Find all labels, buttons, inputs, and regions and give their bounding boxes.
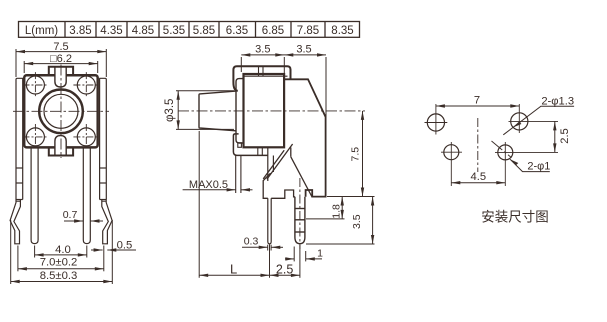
svg-text:2.5: 2.5 [559,128,571,144]
dimension L and 2.5 [199,131,300,278]
svg-text:4.35: 4.35 [100,25,122,37]
left flange [16,78,23,199]
dimension 0.5 [91,240,136,252]
svg-text:φ3.5: φ3.5 [164,99,176,122]
dimension 1.8 [306,197,375,219]
dimension 0.3 [242,236,283,249]
corner circle top-left [26,76,44,94]
contact stem [267,147,269,181]
plunger button [199,91,236,131]
svg-text:6.35: 6.35 [226,25,248,37]
svg-text:7.5: 7.5 [349,147,361,162]
svg-text:□6.2: □6.2 [50,53,72,65]
hole bottom-right φ1 [498,145,513,160]
svg-text:4.5: 4.5 [471,171,487,183]
corner circle bottom-left [26,128,44,146]
diagonal centerline through φ1 hole [492,141,512,158]
svg-text:3.5: 3.5 [351,214,363,229]
dimension 8.5±0.3 [11,220,113,284]
guide boss bottom [238,143,242,148]
dimension 7.5 [16,41,106,77]
svg-text:7.5: 7.5 [53,41,68,53]
bracket left-bottom piece [233,134,267,156]
corner circle top-right [77,76,95,94]
dimension φ3.5 [164,91,234,130]
dimension 0.7 [63,209,103,223]
side view center line [178,110,365,112]
vertical centerline [477,118,479,172]
MAX0.5 tab [235,156,237,194]
body square [24,75,98,147]
svg-text:MAX0.5: MAX0.5 [189,179,228,191]
dimension 4.0 [35,244,87,258]
leader 2-φ1.3 [503,96,574,135]
svg-text:0.5: 0.5 [117,240,133,252]
svg-text:4.0: 4.0 [55,244,71,256]
svg-text:6.85: 6.85 [262,25,284,37]
dimension 4.5 [451,171,505,184]
bottom mounting tab [49,136,73,156]
svg-text:4.85: 4.85 [132,25,154,37]
svg-text:2.5: 2.5 [276,263,293,277]
plunger collar [236,79,244,143]
bent snap-in leg right [102,200,112,244]
svg-text:1.8: 1.8 [331,204,343,219]
central button circle [39,90,83,134]
svg-text:7.0±0.2: 7.0±0.2 [40,257,78,269]
hole bottom-left φ1 [444,145,459,160]
svg-text:安装尺寸图: 安装尺寸图 [481,210,549,225]
dimension 3.5 / 3.5 top [241,43,326,117]
svg-text:L: L [230,262,237,277]
dimension 7.0±0.2 [18,246,104,272]
corner circle bottom-right [77,128,95,146]
bracket inner edge [290,147,292,156]
svg-text:2-φ1.3: 2-φ1.3 [541,96,574,108]
svg-text:L(mm): L(mm) [25,25,58,37]
center lines [13,110,109,112]
right flange [99,78,106,199]
dimension 2.5 [553,121,571,152]
svg-text:0.3: 0.3 [244,236,259,248]
pocket [263,173,295,198]
dimension MAX0.5 [183,179,253,192]
leader 2-φ1 [510,159,550,172]
top mounting tab [49,67,73,87]
straight leg right [83,148,90,244]
dimension 1 [285,247,323,262]
body rectangle [244,74,285,147]
svg-text:3.5: 3.5 [296,43,311,55]
crimped leg centerline [299,178,301,249]
svg-text:2-φ1: 2-φ1 [527,160,550,172]
front thin leg [268,198,271,244]
gusset diagonals [267,144,293,179]
straight leg left [31,148,38,244]
svg-text:3.5: 3.5 [255,43,270,55]
dimension table [19,22,360,38]
dimension 6.2 [24,53,98,73]
svg-text:5.85: 5.85 [193,25,215,37]
dimension 7.5 right [349,111,364,197]
top cap of bracket [233,66,290,91]
hole top-left φ1.3 [427,114,444,131]
rear crimped leg [295,197,305,244]
dimension 3.5 right [306,197,375,245]
svg-text:1: 1 [317,247,323,259]
svg-text:0.7: 0.7 [63,209,78,221]
svg-text:8.35: 8.35 [331,25,353,37]
bracket right arm [284,79,325,197]
svg-text:7: 7 [474,95,480,107]
hole top-right φ1.3 [511,113,528,130]
svg-text:3.85: 3.85 [69,25,91,37]
svg-text:8.5±0.3: 8.5±0.3 [40,270,78,282]
svg-text:7.85: 7.85 [297,25,319,37]
dimension 7 [436,95,519,108]
svg-text:5.35: 5.35 [163,25,185,37]
bent snap-in leg left [10,200,20,244]
